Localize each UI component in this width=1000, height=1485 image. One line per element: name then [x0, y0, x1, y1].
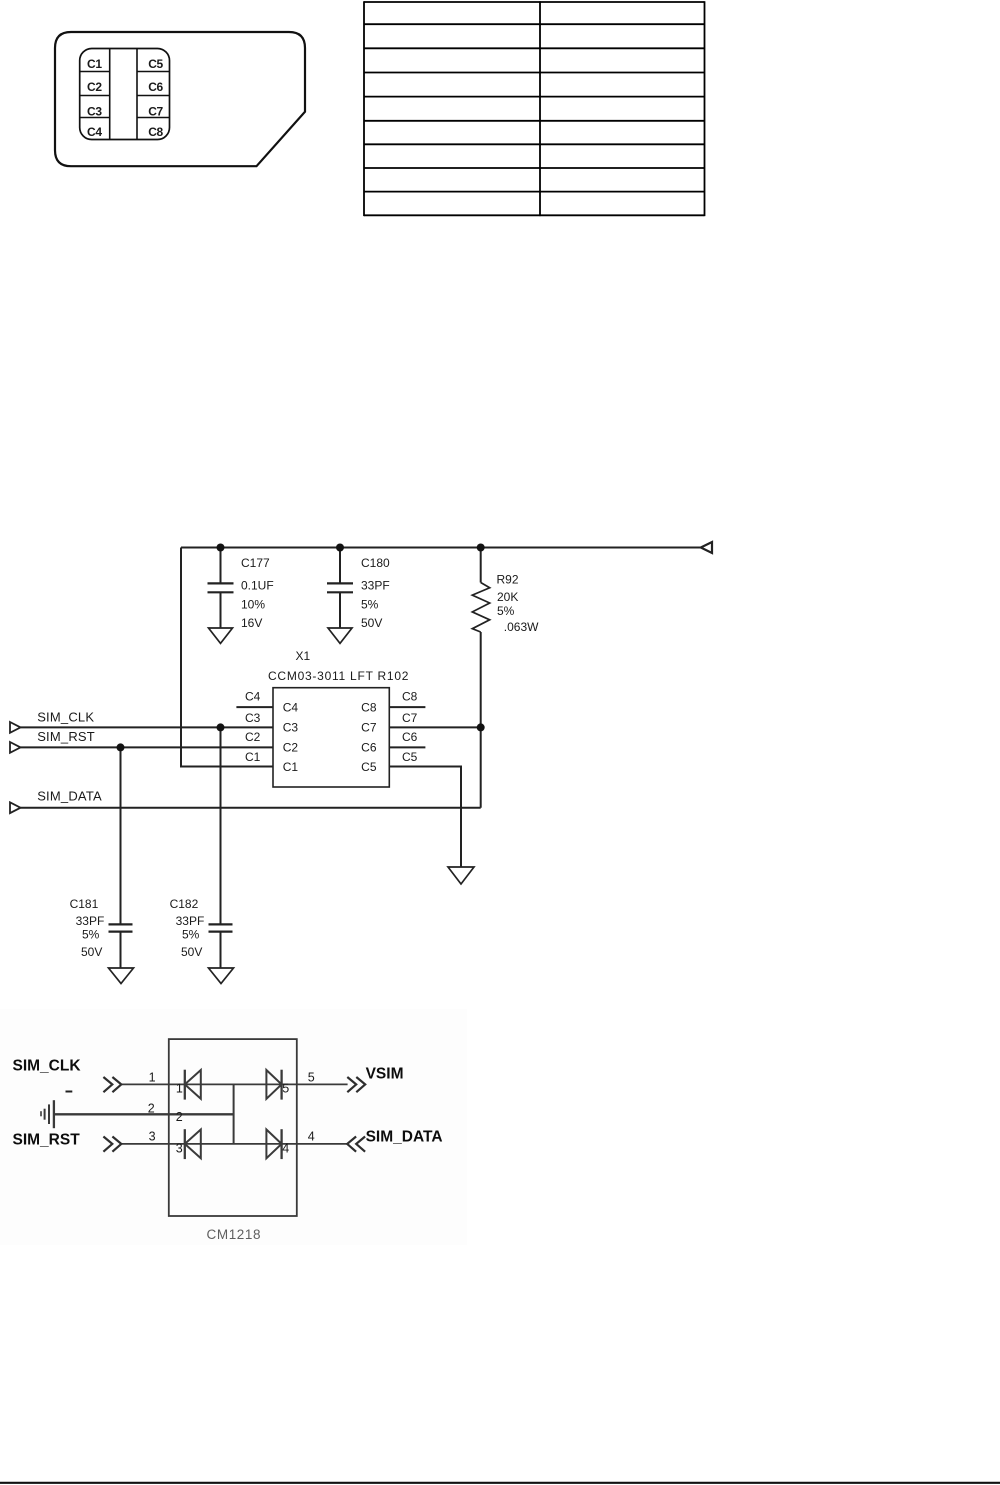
svg-text:C6: C6 — [148, 80, 163, 94]
SIM contact center bar — [109, 49, 111, 139]
svg-text:50V: 50V — [361, 616, 382, 630]
svg-text:C4: C4 — [245, 690, 261, 704]
chevron pin3 — [103, 1137, 121, 1152]
wire R92 to SIM_DATA — [480, 632, 482, 808]
svg-text:SIM_CLK: SIM_CLK — [37, 710, 94, 725]
svg-text:C177: C177 — [241, 556, 270, 570]
wire C5 to ground — [389, 767, 461, 867]
svg-text:5%: 5% — [82, 928, 100, 942]
X1 outside pin labels right — [402, 690, 418, 765]
earth ground pin2 — [53, 1100, 55, 1128]
C177 value labels — [241, 556, 274, 630]
svg-text:VSIM: VSIM — [366, 1066, 404, 1083]
junction C181/SIM_RST — [117, 743, 125, 751]
svg-text:10%: 10% — [241, 598, 265, 612]
wire pin2 — [54, 1113, 233, 1115]
svg-text:C1: C1 — [245, 750, 261, 764]
pin C8 stub — [389, 706, 425, 708]
svg-text:33PF: 33PF — [76, 914, 105, 928]
C182 value labels — [170, 897, 205, 959]
svg-text:33PF: 33PF — [176, 914, 205, 928]
svg-text:C5: C5 — [361, 760, 377, 774]
pin numbers inside — [176, 1081, 289, 1155]
svg-text:50V: 50V — [181, 945, 202, 959]
chevron VSIM — [347, 1077, 365, 1092]
svg-text:5: 5 — [282, 1081, 289, 1095]
svg-text:C8: C8 — [402, 690, 418, 704]
junction C180/VSIM rail — [336, 544, 344, 552]
ground C182 — [209, 968, 234, 984]
capacitor C181 — [120, 747, 122, 924]
pin C6 stub — [389, 746, 425, 748]
SIM card outline — [55, 32, 305, 166]
svg-text:C3: C3 — [283, 721, 299, 735]
svg-text:2: 2 — [176, 1110, 183, 1124]
svg-text:C181: C181 — [70, 897, 99, 911]
capacitor C180 — [339, 548, 341, 584]
svg-text:16V: 16V — [241, 616, 262, 630]
ground C177 — [209, 628, 233, 643]
wire pin3 to pin4 — [122, 1143, 348, 1145]
svg-text:C3: C3 — [87, 105, 102, 119]
svg-text:C6: C6 — [361, 741, 377, 755]
svg-text:SIM_CLK: SIM_CLK — [13, 1057, 82, 1074]
SIM contact labels C1-C4 — [87, 57, 102, 139]
svg-text:C6: C6 — [402, 730, 418, 744]
wire VSIM top rail — [181, 547, 701, 549]
ground C181 — [109, 968, 134, 984]
chevron SIM_DATA — [347, 1137, 365, 1152]
svg-text:C4: C4 — [283, 700, 299, 714]
port SIM_DATA — [10, 802, 21, 813]
svg-text:C7: C7 — [148, 105, 163, 119]
port arrow right (VSIM in) — [701, 542, 712, 553]
svg-text:4: 4 — [308, 1130, 315, 1144]
SIM contact labels C5-C8 — [148, 57, 163, 139]
connector X1 box — [273, 688, 389, 787]
svg-text:SIM_RST: SIM_RST — [13, 1131, 81, 1148]
svg-text:C7: C7 — [402, 711, 418, 725]
table row lines — [364, 1, 705, 3]
svg-text:X1: X1 — [296, 649, 311, 663]
X1 inside pin labels right — [361, 700, 377, 773]
R92 value labels — [497, 573, 540, 634]
svg-text:C3: C3 — [245, 711, 261, 725]
svg-text:5%: 5% — [497, 604, 515, 618]
svg-text:C8: C8 — [148, 125, 163, 139]
svg-text:4: 4 — [282, 1141, 289, 1155]
svg-text:C1: C1 — [87, 57, 102, 71]
svg-text:5%: 5% — [361, 598, 379, 612]
ground C180 — [328, 628, 352, 643]
C181 value labels — [70, 897, 105, 959]
center junction wire — [233, 1084, 235, 1144]
svg-text:C5: C5 — [402, 750, 418, 764]
junction C7/R92 — [477, 723, 485, 731]
svg-text:C5: C5 — [148, 57, 163, 71]
diode D4 — [266, 1130, 281, 1159]
chevron pin1 — [103, 1077, 121, 1092]
svg-text:SIM_DATA: SIM_DATA — [37, 789, 102, 804]
svg-text:C2: C2 — [87, 80, 102, 94]
wire left vertical to C1 — [181, 548, 273, 767]
wire SIM_CLK to C3 — [21, 726, 274, 728]
wire SIM_DATA — [21, 807, 481, 809]
footer rule — [0, 1482, 1000, 1484]
junction R92/VSIM rail — [477, 544, 485, 552]
svg-text:2: 2 — [148, 1102, 155, 1116]
svg-text:3: 3 — [149, 1130, 156, 1144]
wire SIM_RST to C2 — [21, 746, 274, 748]
svg-text:C180: C180 — [361, 556, 390, 570]
diode D3 — [184, 1129, 186, 1159]
port SIM_RST — [10, 742, 21, 753]
svg-text:50V: 50V — [81, 945, 102, 959]
svg-text:C7: C7 — [361, 721, 377, 735]
svg-text:.063W: .063W — [504, 620, 539, 634]
SIM contact block — [80, 49, 170, 140]
diode D1 — [184, 1070, 186, 1100]
port SIM_CLK — [10, 722, 21, 733]
capacitor C177 — [220, 548, 222, 584]
svg-text:CCM03-3011 LFT R102: CCM03-3011 LFT R102 — [268, 669, 409, 683]
underscore artifact — [66, 1091, 73, 1093]
svg-text:CM1218: CM1218 — [207, 1227, 262, 1242]
svg-text:SIM_DATA: SIM_DATA — [366, 1129, 443, 1146]
svg-text:R92: R92 — [497, 573, 519, 587]
svg-text:5%: 5% — [182, 928, 200, 942]
svg-text:20K: 20K — [497, 590, 518, 604]
junction C177/VSIM rail — [217, 544, 225, 552]
CM1218 box — [169, 1039, 297, 1216]
scan background — [0, 1009, 467, 1245]
table column lines — [363, 1, 365, 216]
svg-text:5: 5 — [308, 1071, 315, 1085]
X1 outside pin labels left — [245, 690, 261, 765]
svg-text:3: 3 — [176, 1141, 183, 1155]
svg-text:C2: C2 — [283, 741, 299, 755]
diode D5 — [266, 1070, 281, 1099]
pin C4 stub — [236, 706, 273, 708]
X1 inside pin labels left — [283, 700, 299, 773]
svg-text:33PF: 33PF — [361, 578, 390, 592]
svg-text:SIM_RST: SIM_RST — [37, 729, 95, 744]
wire C7 to R92 — [389, 726, 480, 728]
svg-text:C4: C4 — [87, 125, 102, 139]
svg-text:1: 1 — [149, 1071, 156, 1085]
pin assignment table — [364, 1, 705, 216]
wire pin1 to pin5 — [122, 1083, 348, 1085]
junction C182/SIM_CLK — [217, 723, 225, 731]
svg-text:C2: C2 — [245, 730, 261, 744]
resistor R92 — [480, 548, 482, 583]
svg-text:1: 1 — [176, 1081, 183, 1095]
svg-text:C1: C1 — [283, 760, 299, 774]
svg-text:0.1UF: 0.1UF — [241, 578, 274, 592]
capacitor C182 — [220, 727, 222, 924]
C180 value labels — [361, 556, 390, 630]
svg-text:C182: C182 — [170, 897, 199, 911]
SIM contact row dividers — [80, 71, 110, 73]
pin numbers outside — [148, 1071, 315, 1144]
svg-text:C8: C8 — [361, 700, 377, 714]
ground C5 — [448, 867, 474, 884]
